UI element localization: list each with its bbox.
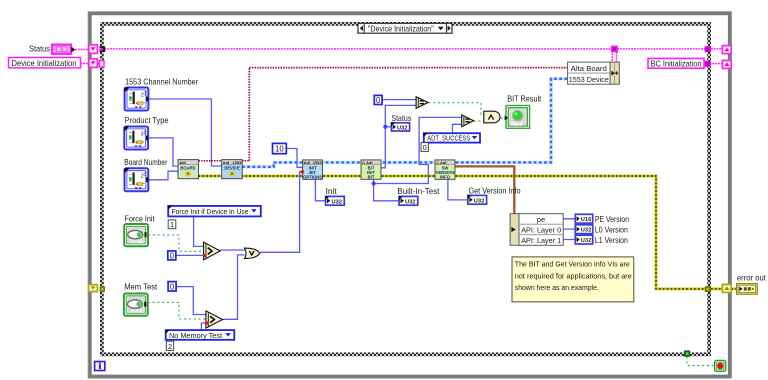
svg-text:Status: Status xyxy=(391,113,411,123)
control: Mem Test boolean slide switch xyxy=(124,282,158,316)
node: right error shift register (up arrow) xyxy=(722,284,731,292)
svg-text:Device Initialization: Device Initialization xyxy=(12,59,77,68)
node: left shift register row2 (down arrow) xyxy=(89,59,98,68)
node: constant 0 (select1 input) xyxy=(168,251,176,261)
svg-text:API: Layer 1: API: Layer 1 xyxy=(521,236,561,245)
svg-text:BC Initialization: BC Initialization xyxy=(651,59,702,68)
indicator: BIT Result LED xyxy=(505,93,542,128)
svg-text:Force Init if Device In Use: Force Init if Device In Use xyxy=(172,207,249,216)
svg-text:BOARD: BOARD xyxy=(180,166,195,171)
case selector label "Device Initialization" xyxy=(358,23,452,33)
wire: blue OR output up to INIT BIT OPTIONS xyxy=(260,172,302,253)
svg-text:U32: U32 xyxy=(581,238,591,244)
control: Product Type numeric slider terminal xyxy=(124,115,169,149)
node: olive error tunnel on left case border xyxy=(100,286,105,291)
indicator: L1 Version U32 xyxy=(575,235,628,245)
wire: green dashed case tunnel to loop stop terminal xyxy=(687,357,715,366)
wire: blue SW VERSION INFO to Get Version Info indicator xyxy=(448,179,468,200)
svg-text:U32: U32 xyxy=(581,228,591,234)
svg-text:Adt: Adt xyxy=(179,160,186,165)
svg-text:L1 Version: L1 Version xyxy=(595,235,628,245)
svg-text:Built-In-Test: Built-In-Test xyxy=(397,186,440,196)
node: pink tunnel row1 on right case border xyxy=(705,46,711,52)
case structure border (checkered) xyxy=(102,24,709,354)
svg-text:U32: U32 xyxy=(397,126,407,132)
VI: INIT BIT OPTIONS xyxy=(301,160,323,179)
svg-text:U32: U32 xyxy=(332,199,342,205)
node: loop stop condition terminal xyxy=(715,360,726,371)
node: ring2 digital display 2 xyxy=(166,341,173,351)
node: unbundle by name (pe / API Layer 0 / API Layer 1) xyxy=(510,214,563,246)
node: Built-In-Test indicator U32 xyxy=(397,186,440,205)
node: AND gate xyxy=(484,111,500,123)
svg-text:pe: pe xyxy=(537,215,545,224)
svg-text:No Memory Test: No Memory Test xyxy=(169,331,223,340)
svg-text:1553 Channel Number: 1553 Channel Number xyxy=(125,76,198,86)
wire: pink Device Initialization constant to left shift register 2 xyxy=(81,63,100,65)
wire: green dashed AND to BIT Result LED xyxy=(501,117,506,119)
wire: blue select2 to OR gate xyxy=(223,255,245,319)
node: equals1 comparison xyxy=(416,97,428,109)
node: Device Initialization string constant xyxy=(9,58,81,69)
wire: blue Product Type to BOARD xyxy=(148,138,178,166)
VI: 1553 DEVICE open xyxy=(222,160,243,179)
svg-text:Board Number: Board Number xyxy=(124,157,167,167)
wire: blue BIT INIT BIT bottom to Built-In-Test and equals2 xyxy=(372,117,462,200)
node: equals2 comparison xyxy=(462,115,474,127)
svg-text:Force Init: Force Init xyxy=(125,214,156,224)
wire: brown version cluster from SW VERSION INFO to unbundle xyxy=(455,166,514,213)
node: constant 0 (select2 input) xyxy=(168,282,176,292)
wire: green dashed Mem Test to select 2 xyxy=(148,302,206,319)
node: constant 10 xyxy=(273,143,287,153)
svg-text:Status: Status xyxy=(29,44,50,54)
control: Board Number numeric slider terminal xyxy=(124,157,167,191)
control: 1553 Channel Number numeric slider terminal xyxy=(125,76,199,110)
VI: SW VERSION INFO xyxy=(435,160,455,179)
wire: blue 1553 Channel Number to DEVICE xyxy=(149,99,222,166)
svg-text:The BIT and Get Version Info V: The BIT and Get Version Info VIs are xyxy=(515,260,630,269)
indicator: L0 Version U32 xyxy=(575,224,628,234)
wire: blue BIT INIT BIT status up to equals1 and Status indicator xyxy=(381,105,416,167)
wire: blue ring No Memory Test to select2 xyxy=(201,323,206,330)
svg-text:Alta Board: Alta Board xyxy=(571,64,607,73)
svg-text:Mem Test: Mem Test xyxy=(124,282,158,292)
svg-text:2: 2 xyxy=(141,173,144,179)
node: Get Version Info indicator U32 xyxy=(468,186,521,205)
svg-text:Init: Init xyxy=(326,186,338,196)
svg-text:3: 3 xyxy=(141,132,144,138)
svg-text:1: 1 xyxy=(170,220,174,229)
node: loop iteration terminal i xyxy=(95,362,105,371)
wire: blue constant 0 to equals1 xyxy=(382,99,416,101)
svg-text:0: 0 xyxy=(376,96,381,105)
svg-text:1553 Device: 1553 Device xyxy=(569,75,609,84)
svg-text:Get Version Info: Get Version Info xyxy=(469,186,521,196)
node: ring constant Force Init if Device In Use xyxy=(168,206,261,217)
svg-text:shown here as an example.: shown here as an example. xyxy=(515,283,599,292)
node: select1 function xyxy=(203,242,220,260)
wire: pink dotted Status terminal to left shift register xyxy=(75,49,89,51)
wire: pink BC Initialization to tunnel and tunnel to shift register (row 2) xyxy=(704,63,722,65)
node: green tunnel on bottom case border xyxy=(684,350,690,356)
wire: blue ring Force Init if Device In Use to select1 xyxy=(194,217,204,247)
wire: thick blue dashed 1553 Device handle xyxy=(242,79,568,167)
svg-text:U32: U32 xyxy=(474,198,484,204)
wire: pink dotted right tunnel to shift register (row 1) xyxy=(711,48,722,50)
svg-text:PE Version: PE Version xyxy=(595,214,629,224)
svg-text:L0 Version: L0 Version xyxy=(595,224,628,234)
node: ring constant No Memory Test xyxy=(165,330,234,340)
wire: green dashed equals1 to AND gate xyxy=(428,103,484,115)
node: constant 0 (top, equals1 input) xyxy=(374,95,382,105)
node: free label comment box xyxy=(512,257,634,302)
svg-text:2: 2 xyxy=(168,342,172,351)
node: pink tunnel row2 on right case border xyxy=(705,61,711,67)
svg-text:OPTIONS: OPTIONS xyxy=(303,174,322,179)
indicator: PE Version U16 xyxy=(575,214,629,224)
wire: blue constant 0 to select2 xyxy=(177,287,206,315)
wire: blue Board Number to BOARD xyxy=(148,171,178,180)
node: Status indicator U32 xyxy=(391,113,411,132)
VI: BIT INIT BIT xyxy=(361,160,381,179)
svg-text:error out: error out xyxy=(737,273,767,283)
VI: BOARD (Alta board open) xyxy=(178,160,199,179)
wire: pink dotted long top wire from left tunnel to bundle and on to right tunnel xyxy=(105,46,705,63)
svg-text:0: 0 xyxy=(423,143,427,152)
svg-text:Product Type: Product Type xyxy=(125,115,169,125)
node: ADT_SUCCESS ring constant xyxy=(424,133,481,143)
wire: blue INIT BIT OPTIONS to Init indicator xyxy=(315,179,325,200)
node: select2 function xyxy=(205,311,222,328)
wire: blue unbundle rows to version indicators xyxy=(563,219,575,240)
svg-text:BIT: BIT xyxy=(368,174,375,179)
wire: olive error wire from BOARD through VIs to error out xyxy=(199,176,737,289)
svg-text:ADT_SUCCESS: ADT_SUCCESS xyxy=(427,134,470,143)
wire: crimson Alta Board refnum BOARD to bundle xyxy=(199,68,568,161)
node: case selector terminal on left case border xyxy=(99,61,104,67)
node: olive error tunnel on right case border xyxy=(705,286,711,292)
svg-text:not required for applications,: not required for applications, but are xyxy=(515,271,632,280)
node: ring1 digital display 1 xyxy=(168,220,176,229)
svg-text:10: 10 xyxy=(275,145,284,154)
node: BC Initialization string constant xyxy=(648,58,704,68)
svg-text:0: 0 xyxy=(170,251,175,260)
wire: green dashed Force Init to select 1 xyxy=(148,235,204,251)
svg-text:Adt: Adt xyxy=(223,160,230,165)
svg-text:"Device Initialization": "Device Initialization" xyxy=(368,23,434,33)
wire: blue constant 10 to INIT BIT OPTIONS xyxy=(286,149,302,168)
svg-text:U16: U16 xyxy=(581,217,591,223)
svg-text:INFO: INFO xyxy=(440,174,451,179)
node: right shift register row1 (up arrow) xyxy=(722,46,731,54)
node: bundle by name (Alta Board / 1553 Device) xyxy=(568,62,620,84)
node: left error shift register (down arrow, olive) xyxy=(89,285,98,292)
node: right shift register row2 (up arrow) xyxy=(722,60,731,68)
svg-text:2: 2 xyxy=(141,93,144,99)
node: Init indicator U32 xyxy=(325,186,344,205)
svg-text:BIT Result: BIT Result xyxy=(507,93,542,103)
wire: blue select1 to OR gate xyxy=(220,249,244,251)
svg-text:U32: U32 xyxy=(405,199,415,205)
node: OR gate xyxy=(245,248,260,258)
wire: blue ADT_SUCCESS to equals2 xyxy=(453,124,462,133)
node: Status control terminal (outside loop) xyxy=(29,44,75,54)
svg-text:0: 0 xyxy=(170,282,175,291)
svg-text:DEVICE: DEVICE xyxy=(224,166,240,171)
svg-text:1553: 1553 xyxy=(233,160,243,165)
indicator: error out cluster terminal xyxy=(737,273,767,295)
node: black tunnel on case border (Status wire) xyxy=(100,46,106,52)
control: Force Init boolean slide switch xyxy=(124,214,155,247)
wire: green dashed equals2 to AND gate xyxy=(474,120,484,122)
node: left shift register row1 (down arrow) xyxy=(89,45,98,54)
svg-text:API: Layer 0: API: Layer 0 xyxy=(521,225,561,234)
wire: blue constant 0 to select1 xyxy=(176,254,204,256)
node: ADT_SUCCESS digital display 0 xyxy=(421,143,428,152)
